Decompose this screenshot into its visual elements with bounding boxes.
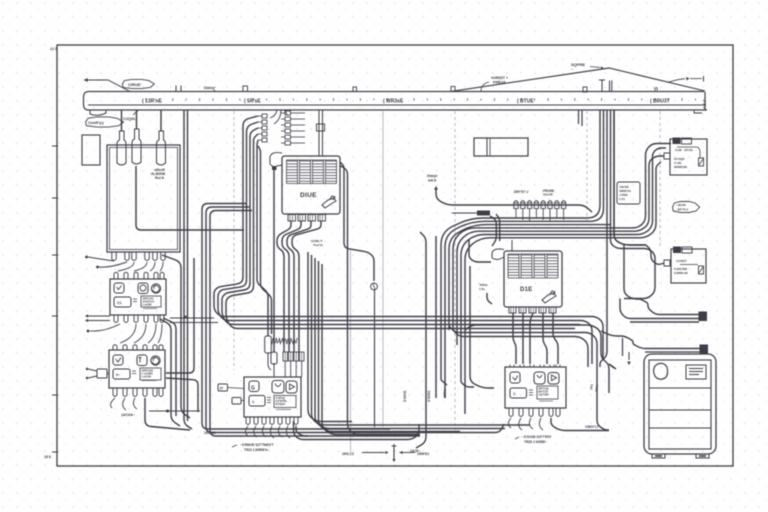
wire — [206, 207, 504, 433]
svg-text:1RS.C2: 1RS.C2 — [342, 452, 354, 456]
column line — [586, 111, 588, 223]
cloud label CIRUE — [122, 79, 154, 88]
wire — [465, 325, 609, 393]
wire — [420, 232, 426, 380]
leader — [487, 293, 492, 304]
svg-text:( BRU3T: ( BRU3T — [650, 99, 670, 105]
svg-text:( WR3sE: ( WR3sE — [383, 99, 404, 105]
bus bar right foot — [694, 110, 702, 113]
plug P4 — [232, 398, 241, 405]
svg-text:h~: h~ — [116, 373, 120, 377]
wire — [160, 319, 180, 426]
box B2 top pins — [114, 272, 118, 279]
control panel B3 — [109, 350, 165, 388]
control panel B2 — [110, 279, 166, 315]
bus bar small posts — [175, 86, 177, 92]
wire — [340, 166, 420, 435]
svg-text:L3'L: L3'L — [620, 197, 626, 201]
DIUE2 hand icon — [542, 291, 556, 303]
svg-text:S3sUR: S3sUR — [543, 193, 554, 197]
bus bar rail — [88, 91, 704, 93]
fuse holder F2 — [132, 129, 141, 164]
wire — [453, 330, 588, 367]
wire — [496, 214, 500, 241]
svg-text:CsM: CsM — [675, 148, 682, 152]
R2 right element — [680, 264, 698, 266]
spec block — [537, 386, 558, 399]
R1 left plug — [664, 153, 670, 159]
fuse panel DIUE2 — [504, 251, 562, 307]
svg-text:Tsm'3s: Tsm'3s — [313, 243, 323, 247]
svg-text:VeRNST +: VeRNST + — [491, 76, 508, 80]
wire — [597, 367, 609, 430]
column line — [233, 111, 235, 370]
R2 inline connector — [673, 247, 681, 254]
box B5 bottom pins — [509, 408, 513, 417]
wire — [170, 317, 214, 319]
column line — [454, 111, 456, 430]
trunk wire — [319, 261, 461, 432]
wire — [282, 221, 301, 352]
generator dividers — [649, 387, 711, 389]
DIUE2 top-left plug — [492, 249, 504, 259]
svg-text:CIRUE': CIRUE' — [128, 82, 141, 87]
generator label plate — [686, 365, 706, 379]
roof mast — [601, 81, 603, 92]
svg-text:B'2Q34: B'2Q34 — [276, 402, 286, 406]
svg-text:1RM'E2: 1RM'E2 — [417, 452, 429, 456]
box B3 top pins — [113, 345, 117, 350]
icon play — [286, 381, 297, 393]
wire — [630, 321, 699, 323]
plug EZ — [218, 384, 228, 391]
wire — [287, 221, 311, 352]
svg-text:S'AR3S: S'AR3S — [403, 391, 407, 402]
trunk wire — [315, 258, 505, 429]
column line — [659, 111, 661, 246]
trunk wire — [308, 252, 352, 422]
svg-text:Ls3'AR: Ls3'AR — [142, 375, 152, 379]
wire — [551, 418, 609, 431]
box B5 top pins — [510, 365, 514, 368]
wire — [214, 116, 603, 360]
DIUE1 left plug — [270, 153, 282, 167]
icon — [138, 283, 148, 294]
trunk wire — [614, 110, 646, 245]
wire — [469, 240, 491, 262]
pin wiggle wires — [111, 398, 115, 408]
border frame — [57, 45, 733, 466]
wire — [436, 188, 592, 212]
spec text block — [140, 368, 161, 380]
generator blob icon — [654, 363, 668, 379]
fuse panel DIUE1 — [282, 156, 340, 214]
converter box B1 inner — [110, 148, 178, 250]
svg-text:D1E: D1E — [520, 287, 533, 293]
relay box R1 — [670, 139, 707, 175]
wire — [294, 421, 420, 440]
fixture box — [474, 138, 528, 156]
wire to fuse F2 — [136, 110, 138, 129]
svg-text:G3RM'sM: G3RM'sM — [674, 271, 688, 275]
left end arrow — [84, 78, 88, 82]
middle plug row — [514, 201, 519, 203]
wire into DIUE2 top — [511, 240, 513, 251]
svg-text:V3RIY'LT: V3RIY'LT — [585, 425, 599, 429]
fuse holder F3 — [157, 131, 166, 165]
wire — [222, 128, 580, 325]
wire — [530, 313, 533, 364]
plug row drop wires — [515, 213, 517, 218]
svg-text:1SR's: 1SR's — [443, 389, 447, 398]
icon shield — [534, 372, 545, 384]
wire — [522, 313, 524, 364]
roof support post — [609, 81, 611, 92]
svg-text:1'3u: 1'3u — [479, 287, 485, 291]
column line — [382, 111, 384, 427]
wire with terminal — [90, 324, 120, 331]
inline fuse — [265, 336, 272, 353]
spec text block — [141, 296, 161, 307]
DIUE1 vent grid — [287, 160, 337, 184]
wire — [543, 313, 547, 364]
wire — [513, 313, 516, 364]
generator inner — [649, 360, 711, 449]
column line — [350, 250, 352, 452]
wire from converter — [136, 166, 244, 230]
wire — [620, 299, 699, 319]
R2 left plug — [664, 260, 670, 266]
svg-text:1RD'3E: 1RD'3E — [204, 431, 216, 435]
svg-text:~RF'TLV: ~RF'TLV — [676, 208, 689, 212]
inline connector — [317, 124, 325, 131]
wire — [490, 216, 496, 246]
icon — [137, 355, 147, 366]
wire — [210, 211, 420, 437]
svg-text:SQPRE: SQPRE — [571, 62, 585, 67]
box B4 bottom pins — [246, 417, 250, 425]
icon play — [548, 373, 559, 385]
wire to R2 plug — [646, 245, 664, 264]
svg-text:( BTUE: ( BTUE — [517, 99, 534, 105]
wire to fuse F1 — [121, 110, 123, 131]
bus bar tick marks — [146, 98, 695, 101]
gauge — [113, 369, 130, 379]
wire stub — [609, 364, 616, 369]
trunk harness wire — [441, 110, 600, 380]
trunk wire — [312, 255, 531, 425]
trunk harness wire — [600, 110, 607, 367]
wire — [202, 204, 390, 430]
bus bar left end cap — [84, 92, 89, 111]
svg-text:b0arpr: b0arpr — [427, 174, 438, 178]
wire arrow into B2 — [85, 314, 88, 317]
bar hanger wires — [318, 110, 320, 156]
wire — [166, 378, 198, 412]
B5 pin wiggle wires — [509, 418, 512, 428]
wire — [622, 338, 624, 356]
roof right arrow — [668, 79, 685, 83]
wire — [258, 146, 272, 334]
R1 inline connector — [673, 138, 681, 145]
fuse holder F1 — [117, 131, 126, 165]
svg-text:~: ~ — [571, 68, 573, 72]
junction box J1 — [82, 135, 100, 165]
wire bar drop — [184, 110, 192, 429]
wire — [374, 290, 376, 427]
svg-text:FIRE3A: FIRE3A — [493, 81, 506, 85]
svg-text:LsA3R: LsA3R — [143, 303, 152, 307]
wire — [461, 382, 474, 387]
wire — [296, 426, 308, 436]
svg-text:Datsy': Datsy' — [204, 85, 216, 90]
plug connector P3 — [97, 369, 107, 378]
svg-text:C2Q0L: C2Q0L — [123, 116, 136, 121]
harness wire — [453, 144, 671, 331]
meter — [249, 396, 265, 407]
control box B5 — [505, 367, 566, 408]
cigar connector above B4 — [271, 352, 277, 364]
plug rows PR2 — [285, 111, 291, 115]
svg-text:~S'SOSE S3TT'RST: ~S'SOSE S3TT'RST — [522, 435, 551, 439]
wire — [277, 221, 291, 352]
svg-text:DRY'ET c': DRY'ET c' — [514, 190, 529, 194]
wire with terminal — [99, 262, 127, 267]
trunk wire — [322, 264, 420, 435]
small connector — [371, 283, 378, 290]
wire — [624, 245, 640, 299]
trunk wire — [611, 110, 656, 299]
svg-text:1Q'V3R: 1Q'V3R — [539, 393, 549, 397]
svg-text:CsmR'q'y: CsmR'q'y — [88, 121, 104, 125]
svg-text:C1: C1 — [117, 301, 122, 305]
cloud label under bar — [86, 117, 124, 127]
wire — [166, 258, 194, 373]
short drop pair — [578, 110, 580, 124]
pin fan wires — [120, 324, 136, 343]
meter — [510, 388, 527, 398]
DIUE2 bottom tabs — [509, 307, 516, 313]
wire — [449, 326, 597, 367]
frame tick marks — [52, 145, 58, 147]
generator G1 — [644, 354, 716, 454]
wire bar drop — [187, 110, 189, 421]
bus bar left foot — [90, 110, 106, 115]
wire — [218, 122, 592, 364]
wire stub — [441, 380, 447, 385]
wire — [470, 266, 494, 388]
arrow — [400, 451, 403, 454]
pin fan wires to box B2 — [118, 262, 134, 271]
svg-text:( 5R'sE: ( 5R'sE — [244, 99, 261, 105]
inline connector dark — [477, 211, 490, 216]
svg-text:~3EAE: ~3EAE — [676, 203, 686, 207]
wire stub — [609, 364, 614, 368]
harness wire — [465, 162, 661, 414]
coil squiggle — [271, 338, 297, 344]
svg-text:A'SHS2: A'SHS2 — [427, 390, 431, 402]
svg-text:2T: 2T — [220, 387, 224, 391]
plug rows PR1 — [262, 114, 267, 118]
ground drop arrow — [628, 352, 630, 360]
connector — [699, 312, 707, 321]
icon — [113, 355, 123, 365]
antenna drop symbol — [393, 444, 395, 459]
wire with terminal — [88, 257, 114, 261]
svg-text:( 13R'nE: ( 13R'nE — [142, 99, 162, 105]
relay box R2 — [671, 249, 706, 283]
wire DIUE1 plug down — [273, 170, 275, 352]
B4 pin wiggle wires — [246, 426, 249, 436]
svg-text:W0RE2M: W0RE2M — [674, 165, 687, 169]
svg-text:wA'A: wA'A — [427, 179, 437, 183]
spec block — [274, 396, 296, 408]
wire to fuse F3 — [160, 110, 162, 131]
converter box B1 — [107, 145, 180, 252]
control box B4 — [244, 377, 301, 417]
up arrow wire — [434, 186, 438, 190]
wire — [292, 221, 321, 352]
svg-text:12 2: 12 2 — [50, 47, 57, 51]
harness wire — [457, 156, 664, 345]
svg-text:1·: 1· — [252, 400, 255, 404]
wire — [170, 322, 218, 324]
DIUE1 hand icon — [322, 196, 336, 208]
box B3 bottom pins — [113, 388, 117, 397]
svg-text:1:: 1: — [513, 392, 516, 396]
generator feet — [652, 454, 665, 458]
icon G — [249, 381, 259, 392]
icon — [510, 372, 520, 383]
harness wire — [449, 225, 611, 330]
battery meter — [114, 297, 131, 307]
wire B3 to bottom rail — [145, 398, 190, 430]
wire — [163, 318, 176, 416]
connector tab row above B4 — [283, 352, 288, 361]
svg-text:Rss'A: Rss'A — [155, 176, 165, 180]
DIUE2 vent grid — [508, 254, 558, 278]
icon refresh — [151, 284, 160, 293]
wire — [645, 351, 700, 353]
wire — [340, 162, 374, 281]
svg-text:~S'RMOR S2T'TMES'T: ~S'RMOR S2T'TMES'T — [240, 443, 274, 447]
svg-text:G: G — [251, 386, 255, 392]
connector — [700, 345, 708, 354]
wire — [553, 313, 558, 364]
svg-text:TR23 1'A5RM'A~: TR23 1'A5RM'A~ — [244, 448, 269, 452]
slope tick — [655, 87, 658, 91]
DIUE1 bottom tabs — [288, 215, 296, 222]
wire — [435, 236, 437, 398]
svg-text:TR3S 1'ASRM~: TR3S 1'ASRM~ — [524, 440, 547, 444]
bus bar right end — [704, 92, 706, 110]
svg-text:1AC6A~: 1AC6A~ — [121, 413, 135, 417]
wire — [640, 299, 699, 315]
trunk wire — [614, 110, 646, 245]
R1 right element — [677, 147, 700, 158]
icon shield — [272, 381, 284, 394]
flow arrow — [184, 316, 188, 319]
icon — [114, 283, 124, 293]
wire — [149, 410, 200, 412]
svg-text:1R'GE: 1R'GE — [684, 148, 693, 152]
box B2 bottom pins — [114, 315, 118, 323]
roof triangle — [451, 68, 705, 91]
wire — [362, 452, 385, 454]
icon circular — [151, 356, 160, 365]
svg-text:DIUE: DIUE — [300, 192, 317, 199]
wire — [162, 255, 190, 418]
wire — [416, 380, 426, 448]
wire — [601, 331, 700, 349]
trunk harness wire — [445, 110, 604, 398]
note box — [617, 182, 640, 204]
harness wire — [461, 148, 666, 382]
wires from bar into plugs — [270, 110, 277, 118]
wire — [257, 140, 268, 336]
svg-text:1A'RST: 1A'RST — [676, 259, 687, 263]
converter bottom pins — [112, 252, 116, 261]
wire — [226, 134, 575, 329]
cloud note — [673, 202, 700, 213]
svg-text:18 8: 18 8 — [44, 455, 51, 459]
